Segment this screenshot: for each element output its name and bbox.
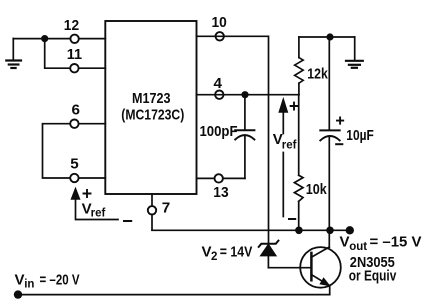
label Vin = -20 V bbox=[15, 271, 80, 290]
svg-text:V: V bbox=[15, 271, 25, 288]
svg-text:ref: ref bbox=[91, 207, 106, 219]
pin 6 bbox=[70, 101, 80, 128]
wire zener to base bbox=[268, 267, 311, 269]
svg-text:100pF: 100pF bbox=[200, 123, 238, 140]
svg-text:10k: 10k bbox=[306, 181, 327, 198]
svg-text:10: 10 bbox=[212, 14, 227, 31]
pin 7 bbox=[148, 194, 170, 230]
svg-text:in: in bbox=[24, 278, 34, 290]
annotation Vref arrow (left) bbox=[71, 188, 118, 220]
pin 10 bbox=[212, 14, 227, 41]
label V2 = 14V bbox=[202, 244, 253, 264]
wire pin11 branch bbox=[45, 39, 106, 69]
node 10k bottom bbox=[295, 227, 303, 235]
svg-text:10µF: 10µF bbox=[346, 127, 374, 144]
wire pin 4 row bbox=[197, 94, 299, 96]
node Vin terminal bbox=[14, 290, 22, 298]
annotation Vref arrow (right) bbox=[273, 99, 298, 217]
svg-text:4: 4 bbox=[214, 75, 223, 92]
svg-text:M1723: M1723 bbox=[132, 90, 171, 107]
pin 12 bbox=[64, 17, 79, 43]
svg-text:= –20 V: = –20 V bbox=[40, 271, 80, 288]
IC U1 M1723 regulator bbox=[105, 21, 196, 194]
annotation minus (right Vref) bbox=[289, 218, 295, 220]
capacitor C1 100pF bbox=[200, 95, 255, 179]
wire pin 10 to zener column bbox=[197, 36, 269, 243]
node Vout terminal bbox=[346, 226, 354, 234]
svg-text:ref: ref bbox=[282, 139, 297, 151]
svg-text:(MC1723C): (MC1723C) bbox=[121, 106, 184, 123]
svg-text:V: V bbox=[340, 234, 350, 251]
svg-text:12k: 12k bbox=[307, 66, 328, 83]
svg-text:7: 7 bbox=[162, 200, 170, 217]
svg-text:= –15 V: = –15 V bbox=[370, 234, 422, 251]
wire top rail 12k to ground bbox=[299, 36, 355, 38]
wire collector to node bbox=[328, 230, 330, 247]
wire pin 13 row bbox=[197, 177, 245, 179]
svg-text:12: 12 bbox=[64, 17, 79, 34]
pin 4 bbox=[214, 75, 224, 99]
wire pin12 row bbox=[13, 38, 105, 40]
zener diode D1 bbox=[259, 241, 279, 268]
svg-text:or Equiv: or Equiv bbox=[349, 268, 397, 285]
node pin4/100pF junction bbox=[241, 91, 248, 98]
wire output node row bbox=[152, 229, 350, 231]
svg-text:2: 2 bbox=[211, 251, 217, 263]
node junction pins 12/11 bbox=[41, 35, 48, 42]
svg-text:V: V bbox=[202, 244, 212, 261]
annotation minus (left Vref) bbox=[124, 220, 131, 222]
pin 11 bbox=[67, 46, 83, 73]
capacitor C2 10uF bbox=[320, 37, 374, 230]
svg-text:6: 6 bbox=[72, 101, 80, 118]
svg-text:out: out bbox=[349, 241, 367, 253]
node collector/10uF junction bbox=[326, 227, 334, 235]
ground GND right bbox=[346, 37, 363, 68]
wire Vin rail bbox=[18, 294, 330, 296]
wire emitter to rail bbox=[329, 286, 331, 295]
svg-text:11: 11 bbox=[67, 46, 83, 63]
svg-text:13: 13 bbox=[213, 184, 228, 201]
resistor R2 10k bbox=[294, 95, 327, 230]
transistor Q1 2N3055 bbox=[300, 247, 397, 288]
svg-text:= 14V: = 14V bbox=[220, 244, 253, 261]
wire pins 6-5 bracket bbox=[43, 124, 106, 178]
label Vout = -15 V bbox=[340, 234, 422, 253]
pin 13 bbox=[213, 174, 228, 201]
resistor R1 12k bbox=[295, 37, 329, 95]
svg-text:5: 5 bbox=[70, 156, 79, 173]
node 10uF top junction bbox=[326, 33, 333, 40]
pin 5 bbox=[70, 156, 79, 183]
ground GND left bbox=[6, 39, 21, 69]
